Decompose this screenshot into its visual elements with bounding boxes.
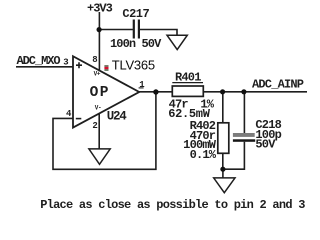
svg-text:V-: V- — [95, 104, 102, 111]
svg-text:0.1%: 0.1% — [190, 148, 217, 162]
svg-text:V+: V+ — [94, 71, 101, 78]
svg-text:+3V3: +3V3 — [87, 2, 113, 16]
svg-text:TLV365: TLV365 — [112, 58, 155, 73]
svg-text:R401: R401 — [175, 71, 201, 85]
svg-text:2: 2 — [92, 121, 97, 131]
svg-text:3: 3 — [63, 58, 68, 68]
svg-text:50V: 50V — [255, 138, 276, 152]
svg-text:ADC_MXO: ADC_MXO — [17, 54, 61, 68]
svg-text:OP: OP — [90, 85, 110, 101]
svg-text:C217: C217 — [122, 7, 149, 21]
svg-text:8: 8 — [92, 55, 97, 65]
svg-text:ADC_AINP: ADC_AINP — [252, 78, 304, 92]
svg-text:U24: U24 — [107, 110, 128, 124]
svg-text:100n 50V: 100n 50V — [110, 37, 162, 51]
svg-text:Place as close as possible to: Place as close as possible to pin 2 and … — [40, 198, 305, 212]
